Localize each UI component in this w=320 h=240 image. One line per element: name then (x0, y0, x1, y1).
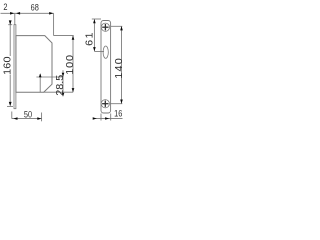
svg-text:68: 68 (31, 1, 39, 12)
svg-text:100: 100 (65, 54, 76, 75)
svg-text:160: 160 (3, 56, 14, 75)
svg-text:140: 140 (114, 57, 125, 79)
svg-text:61: 61 (85, 31, 96, 46)
svg-text:28.5: 28.5 (55, 75, 66, 96)
svg-text:16: 16 (114, 107, 122, 118)
svg-text:50: 50 (24, 108, 32, 119)
svg-text:2: 2 (3, 1, 7, 12)
